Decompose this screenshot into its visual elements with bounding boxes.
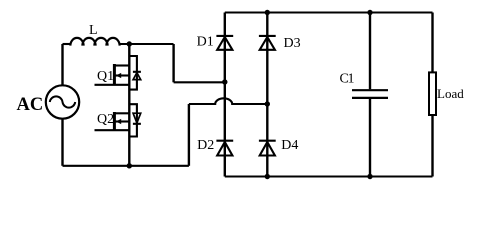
svg-text:L: L xyxy=(89,23,98,38)
svg-text:D2: D2 xyxy=(197,138,214,153)
svg-text:Load: Load xyxy=(437,86,464,101)
svg-text:Q1: Q1 xyxy=(97,69,114,84)
svg-text:D4: D4 xyxy=(281,138,298,153)
svg-text:Q2: Q2 xyxy=(97,112,114,127)
svg-text:D1: D1 xyxy=(197,34,214,49)
svg-text:AC: AC xyxy=(17,95,44,115)
svg-text:C1: C1 xyxy=(340,72,355,87)
svg-text:D3: D3 xyxy=(284,36,301,51)
